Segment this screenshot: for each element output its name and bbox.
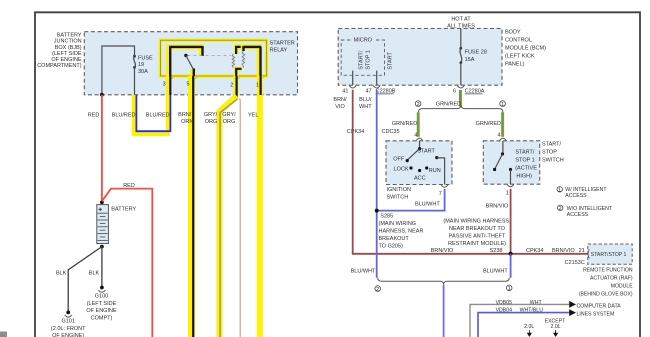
wire fuse 28 to BCM edge xyxy=(460,63,462,86)
wire BLK battery to G101 xyxy=(68,247,102,312)
svg-text:1: 1 xyxy=(508,286,511,292)
svg-text:START/: START/ xyxy=(359,50,365,70)
circled 1 right xyxy=(500,101,506,107)
wire BLU/WHT pin 47 down xyxy=(376,90,378,278)
svg-text:(LEFT KICK: (LEFT KICK xyxy=(505,53,535,59)
svg-text:2.0L: 2.0L xyxy=(551,324,561,330)
relay coil terminal pin 2 top stub xyxy=(236,47,241,54)
svg-text:ACC: ACC xyxy=(414,175,426,181)
wire VDB05 WHT xyxy=(470,304,569,337)
svg-text:CPK34: CPK34 xyxy=(526,248,543,254)
svg-text:OF ENGINE): OF ENGINE) xyxy=(52,333,84,337)
svg-text:5: 5 xyxy=(186,82,189,88)
wire GRY/ORG unhighlighted branch xyxy=(239,99,240,337)
page-corner artifact mark xyxy=(0,332,7,337)
svg-text:ORG: ORG xyxy=(205,119,218,125)
svg-text:BRN/: BRN/ xyxy=(333,97,347,103)
circled 2 below brace xyxy=(375,286,381,292)
relay switch contact highlight xyxy=(168,47,201,76)
svg-text:BOX (BJB): BOX (BJB) xyxy=(55,45,82,51)
wire GRN/RED to ignition switch xyxy=(417,112,419,137)
node battery feed junction xyxy=(100,93,104,97)
wire BLU/WHT pin 7 to S285 xyxy=(378,189,445,211)
relay coil bottom conductor xyxy=(236,69,242,76)
svg-text:CONTROL: CONTROL xyxy=(505,37,532,43)
wire relay pin 1 YEL to bottom xyxy=(257,76,263,337)
svg-text:BLU/: BLU/ xyxy=(359,97,372,103)
relay coil winding right xyxy=(242,51,245,68)
svg-text:STOP: STOP xyxy=(542,149,557,155)
svg-text:LOCK: LOCK xyxy=(394,166,409,172)
svg-text:2: 2 xyxy=(230,82,233,88)
gathering brace xyxy=(378,278,510,285)
svg-text:START/: START/ xyxy=(515,149,535,155)
svg-text:LINES SYSTEM: LINES SYSTEM xyxy=(577,311,615,317)
svg-text:ACCESS: ACCESS xyxy=(567,212,589,218)
svg-text:(MAIN WIRING HARNESS,: (MAIN WIRING HARNESS, xyxy=(443,218,511,224)
svg-text:BATTERY: BATTERY xyxy=(111,206,136,212)
wire GRN/RED from pin 6 xyxy=(459,90,461,107)
wire BLK battery to G100 xyxy=(101,247,103,287)
svg-text:BLU/WHT: BLU/WHT xyxy=(415,202,440,208)
starter relay highlighted box xyxy=(160,40,266,76)
svg-text:START/STOP 1: START/STOP 1 xyxy=(591,252,627,258)
wire RED battery feed to bottom xyxy=(102,189,152,337)
svg-text:OFF: OFF xyxy=(393,156,405,162)
svg-text:GRY/: GRY/ xyxy=(222,112,236,118)
svg-text:HOT AT: HOT AT xyxy=(451,16,471,22)
svg-text:COMPT): COMPT) xyxy=(91,315,113,321)
svg-text:G101: G101 xyxy=(61,319,74,325)
svg-text:BREAKOUT: BREAKOUT xyxy=(379,236,410,242)
svg-text:STARTER: STARTER xyxy=(270,40,295,46)
svg-text:BRN/VIO: BRN/VIO xyxy=(431,248,454,254)
svg-text:(ACTIVE: (ACTIVE xyxy=(515,165,537,171)
svg-text:WHT: WHT xyxy=(359,104,372,110)
svg-text:2: 2 xyxy=(376,287,379,293)
svg-text:MODULE (BCM): MODULE (BCM) xyxy=(505,45,546,51)
GRN/RED distribution brace xyxy=(419,106,503,113)
svg-text:MODULE: MODULE xyxy=(611,283,633,289)
wire pin 47 inside BCM xyxy=(376,71,378,86)
svg-text:1: 1 xyxy=(501,102,504,108)
relay coil winding left xyxy=(232,54,235,68)
wire BLU/RED loop fuse19 to relay pin 3 (highlight) xyxy=(134,95,168,134)
fuse F19 30A xyxy=(133,55,136,58)
ignition switch internals xyxy=(419,141,421,148)
svg-text:STOP 1: STOP 1 xyxy=(515,157,534,163)
svg-text:2: 2 xyxy=(417,102,420,108)
svg-text:15A: 15A xyxy=(465,57,475,63)
relay pin connector arcs xyxy=(167,78,263,79)
svg-text:47: 47 xyxy=(365,89,371,95)
relay pin 5 contact stub xyxy=(190,69,195,76)
svg-text:RUN: RUN xyxy=(429,168,441,174)
svg-text:START/: START/ xyxy=(542,141,562,147)
svg-text:REMOTE FUNCTION: REMOTE FUNCTION xyxy=(583,267,633,273)
svg-text:COMPUTER DATA: COMPUTER DATA xyxy=(577,304,622,310)
svg-text:SWITCH: SWITCH xyxy=(542,157,564,163)
wire BLU/RED loop (blue conductor) xyxy=(136,95,170,132)
svg-text:WHT: WHT xyxy=(530,300,543,306)
svg-text:RED: RED xyxy=(123,183,135,189)
svg-text:VDB04: VDB04 xyxy=(496,308,513,314)
svg-text:BRN/: BRN/ xyxy=(178,112,192,118)
svg-text:S285: S285 xyxy=(380,214,393,220)
svg-text:GRN/RED: GRN/RED xyxy=(476,121,501,127)
svg-text:2.0L: 2.0L xyxy=(524,324,534,330)
wire relay pin 2 stub (highlight + black) xyxy=(233,76,238,98)
wire fuse 28 feed xyxy=(460,29,462,48)
svg-text:BRN/VIO: BRN/VIO xyxy=(486,203,509,209)
svg-text:SWITCH: SWITCH xyxy=(387,194,409,200)
svg-text:PANEL): PANEL) xyxy=(505,61,525,67)
relay movable arm pivot xyxy=(184,54,187,57)
svg-text:RED: RED xyxy=(88,113,100,119)
svg-text:TO G205): TO G205) xyxy=(379,243,404,249)
wire START contact to pin 7 xyxy=(437,158,445,185)
node battery positive xyxy=(100,200,104,204)
svg-text:BLU/RED: BLU/RED xyxy=(146,113,170,119)
svg-text:ACCESS: ACCESS xyxy=(565,193,587,199)
wire pin 41 inside BCM xyxy=(352,71,354,86)
ground G100 xyxy=(100,286,104,290)
svg-text:6: 6 xyxy=(453,89,456,95)
wire GRN/RED to start/stop switch xyxy=(501,112,503,137)
splice S238 xyxy=(509,252,513,256)
svg-text:4: 4 xyxy=(498,133,501,139)
battery xyxy=(97,205,109,244)
micro sub-module box xyxy=(341,40,384,75)
wire BLU/WHT from brace to bottom xyxy=(443,285,445,337)
svg-text:1: 1 xyxy=(506,191,509,197)
note 2 W/O INTELLIGENT ACCESS xyxy=(558,205,563,210)
svg-text:1: 1 xyxy=(558,187,561,193)
svg-text:BODY: BODY xyxy=(505,29,521,35)
wire RED battery to BJB xyxy=(101,95,103,201)
node battery negative xyxy=(100,245,104,249)
wire BRN/VIO pin 41 down and across xyxy=(353,90,588,254)
svg-text:BATTERY: BATTERY xyxy=(57,33,82,39)
ignition switch box xyxy=(386,141,452,185)
svg-text:CDC35: CDC35 xyxy=(382,129,400,135)
svg-text:30A: 30A xyxy=(138,69,148,75)
ground G101 xyxy=(66,311,70,315)
svg-text:HIGH): HIGH) xyxy=(516,173,532,179)
svg-text:41: 41 xyxy=(342,89,348,95)
svg-text:C2153C: C2153C xyxy=(565,260,585,266)
relay switch contact conductor xyxy=(169,46,203,76)
svg-text:1: 1 xyxy=(256,82,259,88)
svg-text:RESTRAINT MODULE): RESTRAINT MODULE) xyxy=(448,241,506,247)
svg-text:(2.0L: FRONT: (2.0L: FRONT xyxy=(51,326,86,332)
svg-text:FUSE 28: FUSE 28 xyxy=(465,49,487,55)
start/stop switch box xyxy=(483,141,539,184)
svg-text:GRY/: GRY/ xyxy=(204,112,218,118)
svg-text:OF ENGINE: OF ENGINE xyxy=(86,308,117,314)
svg-text:IGNITION: IGNITION xyxy=(387,187,411,193)
start/stop switch internals xyxy=(502,141,504,153)
svg-text:(LEFT SIDE: (LEFT SIDE xyxy=(52,51,82,57)
svg-text:(LEFT SIDE: (LEFT SIDE xyxy=(87,301,117,307)
note 1 W/ INTELLIGENT ACCESS xyxy=(557,187,562,192)
svg-text:STOP 1: STOP 1 xyxy=(365,50,371,69)
svg-text:HARNESS, NEAR: HARNESS, NEAR xyxy=(379,228,424,234)
svg-text:BLK: BLK xyxy=(56,271,67,277)
circled 1 below brace xyxy=(506,285,512,291)
svg-text:START: START xyxy=(417,149,435,155)
arm to OFF xyxy=(408,149,420,160)
svg-text:ORG: ORG xyxy=(223,119,236,125)
svg-text:(MAIN WIRING: (MAIN WIRING xyxy=(379,221,417,227)
wire fuse 19 to BJB edge xyxy=(134,67,136,94)
wire BRN/VIO pin 1 to S238 xyxy=(510,189,512,254)
relay movable arm xyxy=(186,56,194,70)
svg-text:2: 2 xyxy=(559,206,562,212)
svg-text:COMPARTMENT): COMPARTMENT) xyxy=(37,63,82,69)
svg-text:BLU/RED: BLU/RED xyxy=(112,113,136,119)
svg-text:GRN/RED: GRN/RED xyxy=(392,121,417,127)
svg-text:RELAY: RELAY xyxy=(270,48,288,54)
svg-text:19: 19 xyxy=(138,62,144,68)
svg-text:FUSE: FUSE xyxy=(138,56,153,62)
svg-text:VDB05: VDB05 xyxy=(496,300,513,306)
svg-text:BLK: BLK xyxy=(89,271,100,277)
BCM pin arrows xyxy=(349,85,464,88)
svg-text:WHT/BLU: WHT/BLU xyxy=(520,308,544,314)
svg-text:7: 7 xyxy=(439,191,442,197)
svg-text:START: START xyxy=(388,51,394,69)
svg-text:BLU/WHT: BLU/WHT xyxy=(483,268,508,274)
svg-text:YEL: YEL xyxy=(248,113,258,119)
svg-text:NEAR BREAKOUT TO: NEAR BREAKOUT TO xyxy=(449,226,506,232)
svg-text:JUNCTION: JUNCTION xyxy=(54,39,82,45)
svg-text:VIO: VIO xyxy=(335,104,345,110)
svg-text:ACTUATOR (RAF): ACTUATOR (RAF) xyxy=(590,275,633,281)
wire VDB04 WHT/BLU xyxy=(478,313,569,337)
wire BLU/WHT below S238 xyxy=(510,254,512,278)
svg-text:PASSIVE ANTI-THEFT: PASSIVE ANTI-THEFT xyxy=(449,233,506,239)
svg-text:G100: G100 xyxy=(95,294,108,300)
wire battery feed inside BJB to fuse 19 xyxy=(102,46,135,95)
remote function actuator (RAF) module box xyxy=(588,244,632,264)
splice S285 xyxy=(375,209,379,213)
battery junction box (BJB) xyxy=(84,32,297,95)
wire GRY/ORG highlighted jog to bottom xyxy=(220,96,237,337)
svg-text:(BEHIND GLOVE BOX): (BEHIND GLOVE BOX) xyxy=(579,291,633,297)
svg-text:BRN/VIO: BRN/VIO xyxy=(552,248,575,254)
svg-text:BLU/WHT: BLU/WHT xyxy=(351,268,376,274)
relay coil terminal pin 1 highlight xyxy=(234,47,260,76)
svg-text:CPK34: CPK34 xyxy=(347,129,364,135)
svg-text:21: 21 xyxy=(579,248,585,254)
fuse F28 15A xyxy=(459,47,462,50)
wire relay pin 3 to BJB edge (highlight + black) xyxy=(166,76,170,95)
relay mechanical linkage (dashed) xyxy=(188,55,232,57)
svg-text:MICRO: MICRO xyxy=(354,37,373,43)
svg-text:4: 4 xyxy=(414,133,417,139)
wire relay pin 5 BRN/ORN to bottom (highlight + black) xyxy=(188,76,195,337)
svg-text:OF ENGINE: OF ENGINE xyxy=(51,57,82,63)
body control module (BCM) box xyxy=(338,29,502,86)
svg-text:S238: S238 xyxy=(490,248,503,254)
svg-text:ORN: ORN xyxy=(181,119,193,125)
svg-text:3: 3 xyxy=(163,82,166,88)
svg-text:GRN/RED: GRN/RED xyxy=(436,101,461,107)
circled 2 left xyxy=(415,101,421,107)
